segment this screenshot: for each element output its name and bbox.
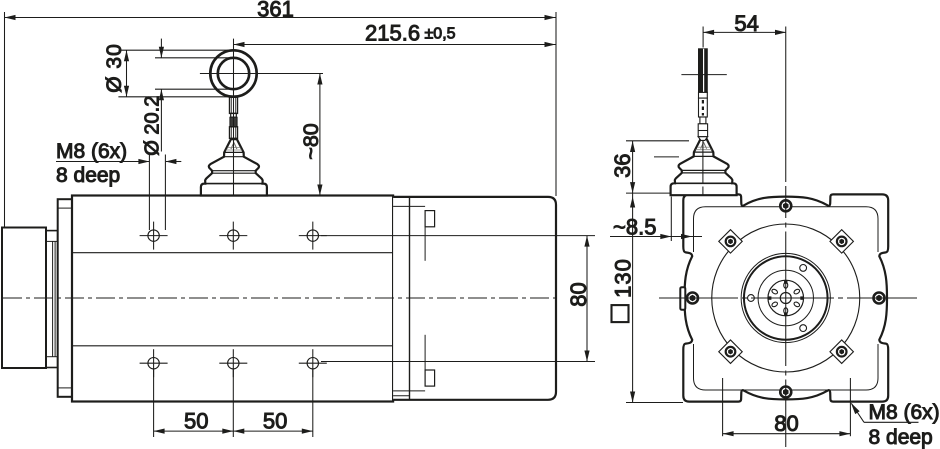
svg-text:8 deep: 8 deep [869, 426, 933, 449]
cover clip top [425, 211, 435, 227]
end view crosshairs [785, 27, 787, 448]
cable [681, 27, 726, 141]
diamond pad screw bottom-right [830, 340, 853, 363]
svg-text:36: 36 [610, 153, 635, 177]
svg-text:Ø 20.2: Ø 20.2 [142, 96, 164, 156]
svg-text:Ø 30: Ø 30 [103, 43, 126, 93]
dim 54 [703, 31, 786, 33]
shaft center circle [780, 293, 791, 304]
svg-text:M8 (6x): M8 (6x) [869, 401, 940, 424]
eyebolt ring [210, 50, 256, 96]
svg-text:M8 (6x): M8 (6x) [56, 140, 127, 163]
dim 215.6 [234, 44, 556, 46]
svg-text:54: 54 [734, 11, 758, 36]
eyebolt stem [230, 97, 238, 138]
centerline side view [3, 297, 560, 299]
svg-text:50: 50 [184, 409, 208, 434]
motor main body [72, 196, 393, 402]
rear cover [393, 197, 556, 400]
clamp collar [46, 231, 58, 368]
dim dia30 tangent lines [118, 49, 232, 51]
edge screws top/bottom/left/right [687, 200, 885, 397]
bearing boss rings [741, 253, 830, 342]
dim ~80 [319, 74, 321, 196]
dim ~8.5 [610, 236, 702, 238]
svg-text:~80: ~80 [299, 123, 323, 160]
shaft lug ring [768, 280, 804, 316]
svg-text:80: 80 [774, 411, 798, 436]
dim M8 leader [56, 161, 149, 163]
hole crosshairs [140, 222, 327, 378]
svg-text:~8.5: ~8.5 [613, 215, 656, 240]
arrowheads side view [5, 15, 590, 434]
front flange [58, 199, 72, 397]
svg-text:8 deep: 8 deep [56, 164, 120, 187]
dim 80 bottom [722, 378, 724, 436]
housing outline [683, 194, 888, 401]
M8 leader right [864, 421, 919, 423]
svg-text:215.6 ±0,5: 215.6 ±0,5 [365, 21, 456, 46]
eyebolt boot bell (side view) [201, 139, 267, 195]
svg-text:50: 50 [263, 409, 287, 434]
dim dia20.2 tangent lines [155, 57, 230, 59]
mounting holes M8 side view [148, 230, 319, 369]
dim 361 [4, 12, 6, 227]
left edge connector tab [680, 287, 685, 310]
diamond pad screw top-left [719, 230, 742, 253]
flange circle [712, 224, 860, 372]
arrowheads end view [630, 30, 860, 437]
diamond pad screw bottom-left [719, 340, 742, 363]
shaft end block [2, 228, 46, 369]
three small holes [748, 295, 755, 302]
ring crosshair [233, 39, 235, 196]
dim 80 side [321, 235, 595, 237]
diamond pad screw top-right [830, 230, 853, 253]
dim 36 + square130 shared line [632, 141, 634, 403]
dim 50 50 [153, 370, 155, 438]
svg-text:80: 80 [566, 282, 591, 306]
svg-text:361: 361 [257, 0, 294, 22]
gland centerline [702, 141, 704, 183]
inner face line [694, 207, 879, 252]
shaft axis dots [768, 280, 804, 315]
cover clip bottom [425, 370, 435, 386]
svg-text:130: 130 [611, 258, 636, 298]
cable gland boot (end view) = bell copy [671, 139, 737, 195]
